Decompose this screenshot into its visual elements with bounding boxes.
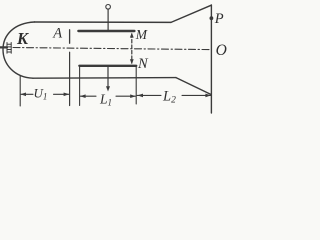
plate N [79,65,136,67]
tube envelope top edge [35,21,172,23]
N lead arrow head down [106,86,110,91]
svg-text:A: A [52,25,62,41]
L1 right extension line [135,67,137,105]
gap arrow head up [130,33,134,38]
U1 dimension line [21,93,69,95]
gap arrow shaft between plates [131,34,133,63]
anode A electrode lower + U1 right extension [69,52,71,105]
L1 dim arrow left [80,94,86,98]
L1 dimension line [80,95,135,97]
svg-text:M: M [135,27,148,42]
L2 dimension line [137,94,211,96]
tube envelope top flare [171,5,211,22]
cathode K filament [7,43,11,54]
svg-text:O: O [216,42,227,59]
L2 dim arrow right [205,94,211,98]
U1 dim arrow left [20,93,26,97]
cathode K lead wire [0,46,7,48]
U1 left extension line [19,76,21,106]
svg-text:N: N [137,56,149,72]
plate M [78,30,134,32]
svg-text:K: K [16,29,29,48]
svg-text:U1: U1 [34,85,48,101]
anode A electrode upper [69,30,71,43]
tube envelope bottom flare [176,78,211,95]
U1 dim arrow right [64,93,70,97]
screen line [210,5,212,113]
tube envelope bottom edge [33,77,176,80]
wire terminal to plate M [107,9,109,30]
P dot on screen [210,16,214,20]
L1 dim arrow right [130,94,136,98]
terminal circle [106,5,111,10]
L2 dim arrow left [137,94,143,98]
central axis dash-dot [13,48,211,50]
wire plate N lead down [107,67,109,88]
tube envelope left dome [3,22,35,78]
svg-text:L1: L1 [99,91,112,107]
L1 left extension line [79,67,81,106]
svg-text:P: P [214,11,224,27]
svg-text:L2: L2 [162,89,176,106]
gap arrow head down [130,59,134,64]
